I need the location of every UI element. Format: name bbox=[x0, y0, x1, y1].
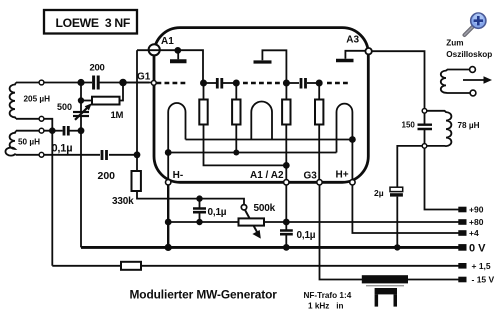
svg-text:Modulierter MW-Generator: Modulierter MW-Generator bbox=[130, 288, 278, 302]
svg-text:50 µH: 50 µH bbox=[18, 138, 40, 147]
svg-text:2µ: 2µ bbox=[374, 188, 384, 198]
svg-text:1 kHz in: 1 kHz in bbox=[308, 301, 344, 310]
svg-text:0 V: 0 V bbox=[469, 243, 486, 255]
svg-text:Zum: Zum bbox=[446, 39, 463, 48]
svg-text:NF-Trafo 1:4: NF-Trafo 1:4 bbox=[304, 291, 352, 300]
svg-text:- 15 V: - 15 V bbox=[472, 275, 495, 285]
svg-text:H+: H+ bbox=[336, 170, 349, 181]
svg-text:500: 500 bbox=[57, 102, 72, 112]
svg-text:0,1µ: 0,1µ bbox=[297, 230, 316, 241]
svg-text:G3: G3 bbox=[304, 171, 318, 182]
svg-text:0,1µ: 0,1µ bbox=[52, 142, 73, 154]
svg-text:150: 150 bbox=[402, 120, 416, 129]
svg-text:200: 200 bbox=[90, 63, 105, 74]
svg-text:330k: 330k bbox=[112, 196, 134, 207]
svg-text:Oszilloskop: Oszilloskop bbox=[446, 50, 492, 59]
svg-text:G1: G1 bbox=[137, 71, 151, 82]
svg-text:78 µH: 78 µH bbox=[458, 121, 480, 130]
svg-text:205 µH: 205 µH bbox=[24, 95, 51, 104]
svg-text:LOEWE 3 NF: LOEWE 3 NF bbox=[56, 16, 131, 30]
svg-text:1M: 1M bbox=[111, 110, 124, 121]
svg-text:A3: A3 bbox=[346, 34, 359, 45]
svg-text:H-: H- bbox=[173, 170, 184, 181]
svg-text:+4: +4 bbox=[469, 228, 479, 238]
svg-text:A1: A1 bbox=[161, 36, 174, 47]
svg-text:500k: 500k bbox=[254, 203, 276, 214]
svg-text:0,1µ: 0,1µ bbox=[208, 207, 227, 218]
svg-text:200: 200 bbox=[98, 170, 116, 182]
svg-text:+90: +90 bbox=[469, 205, 484, 215]
svg-text:A1 / A2: A1 / A2 bbox=[250, 170, 284, 181]
svg-text:+ 1,5: + 1,5 bbox=[472, 261, 491, 271]
svg-text:+80: +80 bbox=[469, 217, 484, 227]
